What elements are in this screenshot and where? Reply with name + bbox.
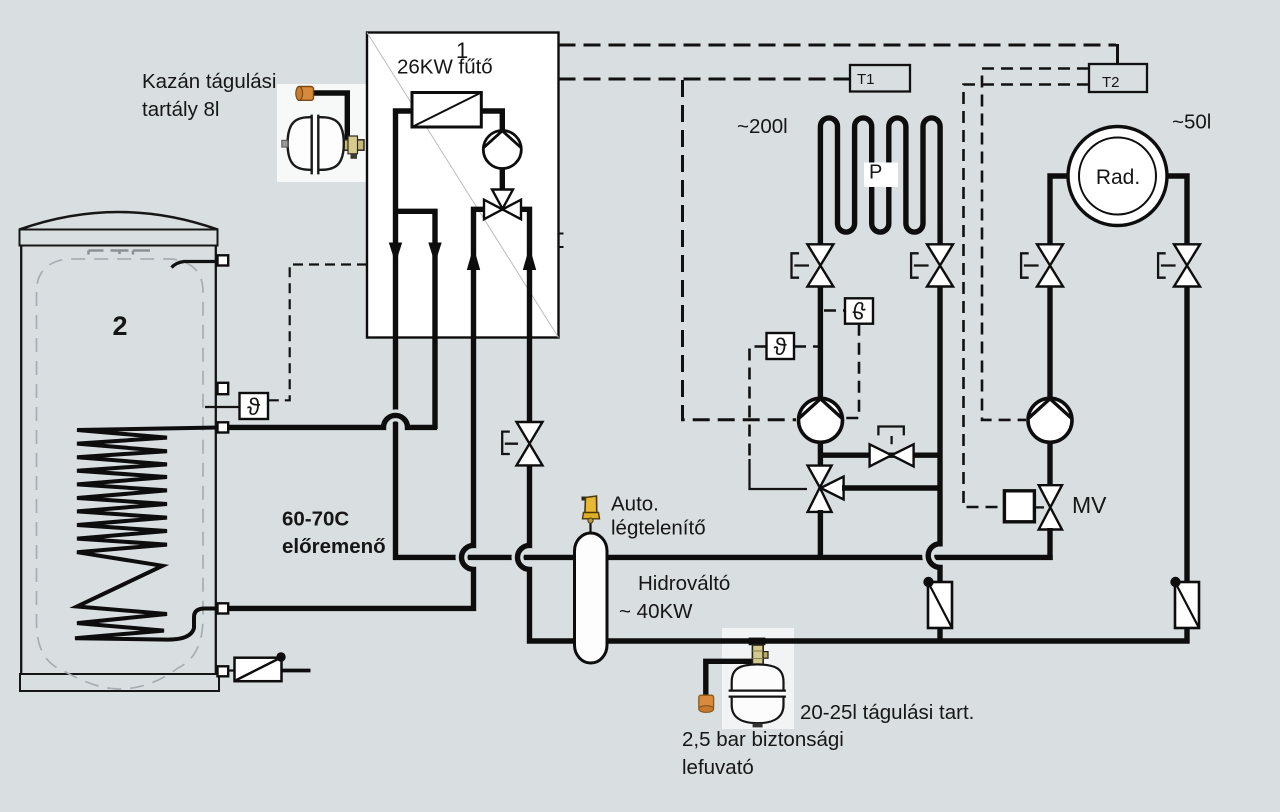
shutoff valve V4 <box>1158 244 1200 286</box>
heater unit box tick marks <box>559 234 564 248</box>
heater unit box outline <box>367 33 559 338</box>
wire bottom return main <box>606 626 1187 641</box>
svg-text:Rad.: Rad. <box>1096 166 1140 189</box>
kazan vessel body <box>288 117 344 170</box>
svg-text:26KW fűtő: 26KW fűtő <box>397 56 493 79</box>
air vent stem <box>589 520 591 536</box>
pipe 3-way valve right port <box>519 209 530 340</box>
serpentine heating loop P <box>820 118 940 245</box>
safety valve pipe to blow-off <box>706 661 754 696</box>
kazan vessel pipe <box>311 93 347 140</box>
SECTION: kazan expansion vessel <box>277 84 366 182</box>
svg-text:Hidrováltó: Hidrováltó <box>638 572 730 595</box>
wire Rad left to valve V3 <box>1050 176 1069 245</box>
motor valve MV <box>1004 485 1062 529</box>
pump P2 <box>799 398 843 442</box>
svg-text:ϑ: ϑ <box>774 334 787 361</box>
tank sensor connector square <box>218 383 229 394</box>
SECTION: storage tank <box>20 212 220 691</box>
SECTION: heater box <box>367 33 576 558</box>
svg-text:T1: T1 <box>857 71 875 88</box>
wire valve V3 to pump P3 <box>1047 287 1052 400</box>
flow arrow up on riser 3 <box>467 247 480 271</box>
T1 thermostat box <box>850 65 910 92</box>
tank 2 dome <box>20 212 218 230</box>
wire MV valve down to main elbow <box>1047 528 1052 560</box>
svg-text:~50l: ~50l <box>1172 111 1211 134</box>
tank 2 heating coil <box>75 428 219 640</box>
pipe 3-way valve left port <box>474 209 487 340</box>
filter strainer right <box>1170 577 1199 628</box>
flow arrow down on riser 1 <box>389 243 402 264</box>
tank sensor well line <box>205 406 240 408</box>
tank drain valve <box>235 652 311 681</box>
svg-text:Auto.: Auto. <box>611 493 659 516</box>
expansion tank bottom stub <box>753 723 763 727</box>
dashed line T2 to pump P3 <box>982 69 1089 420</box>
blow-off orange cap <box>699 695 714 712</box>
svg-text:ϑ: ϑ <box>247 394 260 421</box>
wire serpentine left down to pump P2 <box>818 287 823 400</box>
tank 2 bottom band <box>20 674 219 691</box>
svg-text:60-70C: 60-70C <box>282 508 349 531</box>
pump P3 <box>1028 398 1072 442</box>
dashed line box to T1 <box>559 78 851 81</box>
heater element 26KW <box>412 93 481 128</box>
shutoff valve V3 <box>1021 244 1063 286</box>
wire main flow right section <box>606 555 1050 557</box>
radiator circle Rad <box>1068 127 1167 226</box>
svg-text:lefuvató: lefuvató <box>682 756 754 779</box>
balancing valve <box>870 427 914 467</box>
tank 2 top connector stub b <box>111 251 129 255</box>
expansion tank band <box>729 691 786 697</box>
svg-text:légtelenítő: légtelenítő <box>611 517 706 540</box>
tank drain connector square <box>218 666 229 676</box>
tank 2 right wall <box>215 246 217 675</box>
pipe junction block <box>749 638 766 646</box>
SECTION: control dashed lines <box>269 44 1148 507</box>
svg-text:előremenő: előremenő <box>282 535 386 558</box>
svg-text:Kazán tágulási: Kazán tágulási <box>142 70 276 93</box>
svg-text:2: 2 <box>112 311 127 341</box>
dashed line box to T2 <box>559 44 1117 47</box>
heater unit box diagonal scan line <box>367 33 559 338</box>
svg-text:~ 40KW: ~ 40KW <box>619 600 693 623</box>
expansion tank vessel <box>732 664 784 723</box>
wire pump P2 to mixing valve <box>818 442 823 467</box>
kazan vessel white backdrop <box>277 84 366 182</box>
brass safety group fitting <box>752 645 768 665</box>
hydraulic separator capsule <box>575 533 608 663</box>
svg-text:2,5 bar biztonsági: 2,5 bar biztonsági <box>682 728 844 751</box>
tank 2 coil outlet curve <box>168 609 219 640</box>
sensor box theta-9 left <box>750 333 819 489</box>
tank 2 top band <box>20 230 218 246</box>
kazan vessel band <box>312 115 319 175</box>
filter strainer left <box>923 577 952 628</box>
tank 2 internal outlet pipe curve <box>172 262 217 268</box>
sensor box theta-6 right <box>824 296 873 418</box>
svg-text:P: P <box>869 162 882 184</box>
dashed line T1 branch to pump P2 <box>683 80 797 420</box>
SECTION: hydro separator <box>575 496 608 663</box>
pipe tee to second riser <box>396 211 436 429</box>
kazan vessel left nipple <box>282 140 288 147</box>
wire Rad right to valve V4 <box>1166 176 1187 245</box>
tank 2 top connector stub c <box>133 251 150 255</box>
svg-text:20-25l tágulási tart.: 20-25l tágulási tart. <box>800 701 974 724</box>
wire mixing valve bottom to main <box>818 510 823 560</box>
kazan vessel orange cap <box>296 87 314 101</box>
pipe heater to left riser <box>396 111 577 557</box>
T2 thermostat box <box>1089 64 1147 92</box>
tank 2 top connector stub a <box>89 251 104 255</box>
tank 2 inner vessel dashed outline <box>37 259 204 689</box>
svg-text:ϑ: ϑ <box>852 296 865 323</box>
tank sensor box theta <box>240 393 269 421</box>
tank top connector square <box>218 255 229 265</box>
label P on white patch <box>864 162 898 188</box>
shutoff valve V1 <box>792 244 834 286</box>
tank 2 left wall <box>20 246 22 675</box>
flow arrow up on riser 4 <box>523 247 536 271</box>
shutoff valve V2 <box>911 244 953 286</box>
wire return down with hop and filter <box>928 287 940 643</box>
tank coil top connector square <box>218 422 229 432</box>
wire riser 3 down with hop to tank mid <box>228 340 474 608</box>
pipe heater to pump <box>480 111 502 132</box>
dashed line T2 to MV actuator <box>964 85 1090 508</box>
tank coil bottom connector square <box>218 603 229 613</box>
SECTION: right circuits <box>606 118 1200 729</box>
dashed line tank sensor to box <box>269 265 368 401</box>
3-way mixing valve left circuit <box>808 466 844 512</box>
shutoff valve on riser 4 <box>502 422 542 465</box>
wire pump P3 to MV valve <box>1047 442 1052 487</box>
pipe pump to 3-way valve <box>500 167 505 192</box>
SECTION: labels <box>142 70 1211 779</box>
pump U1 <box>483 131 521 169</box>
auto air vent brass body <box>582 496 600 523</box>
expansion tank white backdrop <box>722 628 794 729</box>
wire mixing valve right port to return <box>842 485 940 490</box>
wire bypass branch to return <box>820 453 940 458</box>
SECTION: expansion tank 20-25l <box>699 638 786 728</box>
SECTION: pipes <box>205 255 576 681</box>
svg-text:T2: T2 <box>1102 74 1120 91</box>
tank drain stub <box>227 669 235 671</box>
flow arrow down on riser 2 <box>428 243 441 264</box>
svg-text:tartály 8l: tartály 8l <box>142 98 219 121</box>
svg-text:MV: MV <box>1072 492 1107 518</box>
wire valve V4 down to filter <box>1184 287 1189 585</box>
wire tank top to riser 2 with hop <box>228 415 437 427</box>
svg-text:~200l: ~200l <box>737 115 788 138</box>
wire riser 4 down to separator bottom with hop <box>518 340 577 641</box>
3-way valve U2 in box <box>484 190 521 220</box>
kazan vessel brass fitting <box>343 136 365 159</box>
